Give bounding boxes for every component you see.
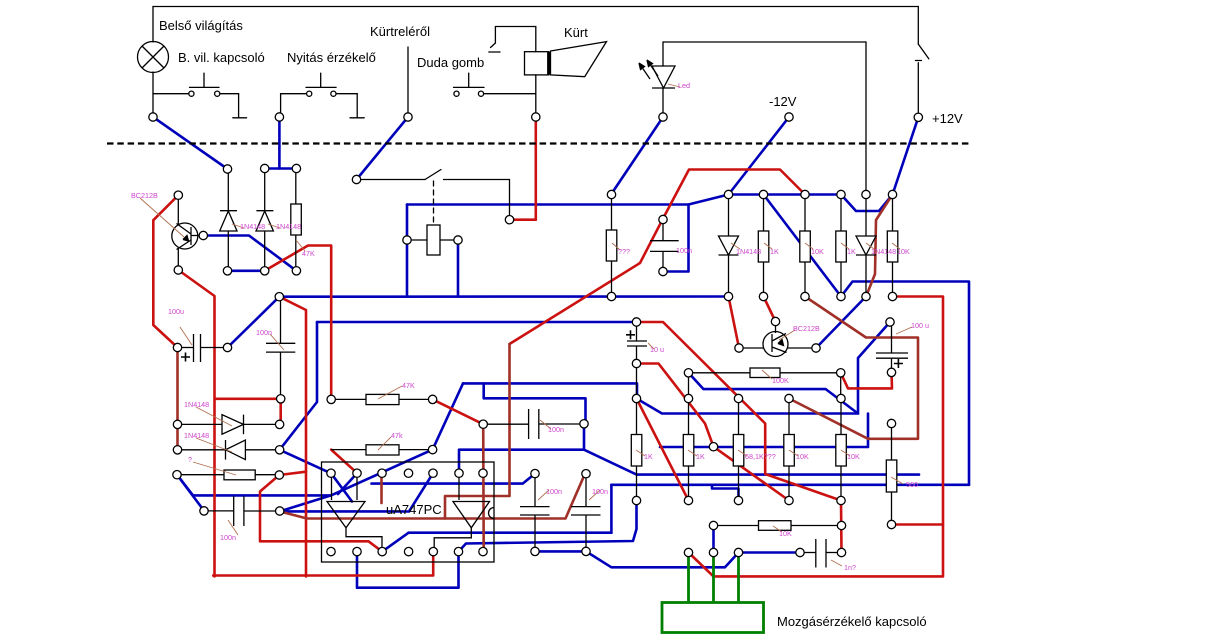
diode D3 1N4148 mid: [728, 195, 730, 237]
wire 10u top diag down to 10K bottom: [637, 322, 842, 501]
wire rail right corner to switch: [917, 7, 919, 45]
svg-text:-12V: -12V: [769, 94, 797, 109]
wire bus1 y474: [637, 473, 919, 476]
svg-text:100n: 100n: [676, 246, 692, 255]
wire cap top node down rail x306: [279, 297, 306, 577]
svg-text:1N4148: 1N4148: [871, 247, 896, 256]
resistor R 560: [891, 424, 893, 461]
resistor R 1K top2: [836, 231, 847, 262]
svg-text:1K: 1K: [847, 247, 856, 256]
wire lamp node to diode column: [153, 117, 228, 169]
wire pin1 stub: [331, 473, 352, 501]
wire led node to resistor top: [611, 117, 663, 195]
wire cap column to pin7 and 100n: [482, 424, 485, 551]
wire lamp row to switch1: [153, 93, 189, 95]
svg-text:1K: 1K: [770, 247, 779, 256]
wire pin3 bottom diag: [382, 533, 408, 552]
wire bus y322 drop to diode2: [280, 322, 317, 450]
wire cap top to 100u right: [228, 297, 280, 348]
svg-text:1K: 1K: [644, 452, 653, 461]
wire sensor switch line: [357, 179, 426, 181]
lamp belso vilagitas: [138, 42, 169, 73]
resistor R 10K col4: [788, 399, 790, 435]
texts magenta values: [131, 81, 929, 572]
svg-text:10 u: 10 u: [650, 345, 664, 354]
diode D2 1N4148 left: [264, 169, 266, 231]
wire pin2 stub diag: [338, 473, 357, 494]
svg-text:Mozgásérzékelő kapcsoló: Mozgásérzékelő kapcsoló: [777, 614, 927, 629]
wire bus y322: [317, 321, 637, 324]
switch +12V blade: [918, 44, 929, 59]
diode D4 1N4148 right: [865, 195, 867, 237]
wire transistor2 top feed: [764, 297, 776, 322]
resistor R 100K horizontal: [689, 372, 751, 374]
wire RED-A 10K top node long feedback to 100n cap: [280, 344, 510, 519]
transistor Q2 BC212B: [763, 332, 788, 357]
wire resistor left to cap: [177, 475, 204, 511]
wire LED frame: [663, 41, 866, 43]
wire V-node to right corner bus: [841, 282, 969, 485]
wire cap bottoms row: [535, 550, 586, 553]
capacitor C 100n mid horizontal: [483, 423, 528, 425]
svg-text:1N4148: 1N4148: [736, 247, 761, 256]
svg-text:10K: 10K: [811, 247, 824, 256]
wire horn node down to relay contact node: [510, 117, 536, 220]
wire duda switch to horn column: [484, 93, 536, 95]
resistor R 68.1K col3: [738, 399, 740, 435]
op-amp2 input stub: [458, 477, 460, 500]
resistor R 10K top2: [887, 231, 898, 262]
wire nyitas node up and to switch2: [280, 94, 282, 117]
resistor R 1K col2: [688, 399, 690, 435]
svg-text:68,1K???: 68,1K???: [745, 452, 776, 461]
svg-text:47K: 47K: [302, 249, 315, 258]
svg-text:???: ???: [618, 247, 630, 256]
wire P2 feedback: [280, 473, 433, 511]
wire tee between diode2 and 47K top: [265, 167, 297, 170]
svg-text:+12V: +12V: [932, 111, 963, 126]
svg-text:Duda gomb: Duda gomb: [417, 55, 484, 70]
wire cap to sensor node: [586, 551, 739, 567]
wire resistor right down rail x260 to pin3: [260, 475, 382, 552]
svg-text:10K: 10K: [779, 529, 792, 538]
wire node diag to B1: [280, 495, 331, 511]
svg-text:100 u: 100 u: [911, 321, 929, 330]
wire kurtrele node to sensor switch: [357, 117, 409, 180]
svg-text:560: 560: [906, 480, 918, 489]
capacitor C 100n mid vertical: [662, 220, 664, 241]
svg-text:1N4148: 1N4148: [240, 222, 265, 231]
relay dashed link: [433, 181, 435, 225]
wire 47K right to cap: [433, 399, 484, 424]
wire pin3 input stub: [380, 477, 383, 503]
wire drop to 100n cap bottom: [663, 205, 689, 272]
wire 47k left to pin2: [331, 450, 357, 474]
resistor R 10K col5: [840, 399, 842, 435]
wire B1 feedback: [193, 450, 433, 496]
resistor R 10K top: [800, 231, 811, 262]
capacitor C 100n bottom left horizontal: [204, 510, 234, 512]
svg-text:100u: 100u: [168, 307, 184, 316]
wire bus2 drop to y447 row: [660, 414, 868, 448]
wire y398 link: [215, 399, 281, 425]
wire cap right down to y449: [584, 424, 637, 475]
wire switch1 to ground: [220, 93, 239, 95]
svg-text:1K: 1K: [696, 452, 705, 461]
wire lamp to switch1 level: [152, 72, 154, 117]
wire 10K bottom to right rail: [689, 297, 944, 577]
wire RED-A upper diagonal from 10K top: [510, 170, 806, 345]
wire y383 steep drop to 47k right: [433, 383, 463, 449]
wire switch2 to ground: [336, 93, 357, 95]
wire diode bottom to 47K column: [265, 246, 332, 400]
svg-text:1N4148: 1N4148: [184, 431, 209, 440]
wire x306 branch to resistor right node: [279, 472, 306, 475]
svg-text:47K: 47K: [402, 381, 415, 390]
capacitor C 100n vert2: [585, 474, 587, 507]
wire transistor1 bottom down left rail: [178, 270, 214, 576]
wire loop 10K top node to 10K column: [789, 297, 918, 439]
wire dip between 1K and 10K top nodes: [841, 195, 893, 212]
svg-text:47k: 47k: [391, 431, 403, 440]
wire bus484 drop to 68K bottom: [712, 485, 739, 501]
op-amp2 output boot to pin: [434, 528, 471, 548]
capacitor C 100u left electrolytic: [178, 347, 194, 349]
wire 100K right to 100u bottom: [841, 372, 892, 388]
svg-text:BC212B: BC212B: [793, 324, 820, 333]
wire 10K bottom node down to cap 1n: [840, 501, 843, 553]
wire relay left to node row horizontal: [407, 195, 729, 205]
svg-text:100n: 100n: [256, 328, 272, 337]
diode D6 1N4148 row: [178, 449, 226, 451]
wire sensor node to cap 1n: [739, 551, 801, 554]
capacitor C 10u electrolytic: [636, 322, 638, 341]
wire top node bus row right: [729, 193, 842, 196]
wire 10K top to diode bottom: [866, 195, 893, 297]
capacitor C 100n left: [280, 297, 282, 344]
texts black: [159, 18, 963, 629]
wire 10K left drop: [712, 526, 715, 553]
svg-text:1n?: 1n?: [844, 563, 856, 572]
resistor R mystery horizontal: [177, 474, 224, 476]
wire red bus y576 left: [213, 553, 433, 576]
wire diode bottoms: [228, 269, 265, 272]
op-amp IC U1 uA747PC: [322, 462, 495, 562]
resistor R led ???: [606, 230, 617, 261]
sensor switch blade: [425, 170, 441, 180]
wire cap right loop y398: [484, 383, 586, 423]
resistor R 1K top: [758, 231, 769, 262]
wire mid bus y296: [279, 295, 728, 298]
wire kurtrele stem: [407, 47, 409, 117]
resistor R 10K bottom horizontal: [714, 525, 759, 527]
relay contact above horn: [495, 27, 535, 52]
motion sensor connector green: [662, 557, 764, 633]
svg-text:B. vil. kapcsoló: B. vil. kapcsoló: [178, 50, 265, 65]
wire 1K top diag to 1K bottom: [637, 399, 689, 501]
LED led1: [652, 66, 675, 88]
svg-text:10K: 10K: [897, 247, 910, 256]
svg-text:?: ?: [188, 455, 192, 464]
resistor 47K vertical left: [291, 204, 302, 235]
resistor R 1K col1: [636, 399, 638, 435]
wire nyitas node down to diode/resistor tee: [278, 117, 281, 169]
wire 100u top via bus2 to 1K top: [637, 322, 891, 414]
node circles: [149, 91, 923, 557]
svg-text:Nyitás érzékelő: Nyitás érzékelő: [287, 50, 376, 65]
wire frame right down to node row: [865, 42, 867, 195]
switch2 nyitas erzekelo: [320, 73, 322, 87]
wire relay left vertical: [406, 205, 409, 297]
wire y532 run: [409, 531, 612, 534]
wire rail to lamp: [152, 7, 154, 43]
horn kurt: [525, 52, 549, 75]
relay coil K1: [427, 225, 440, 255]
wire 100u left node down to diode rows: [176, 348, 179, 450]
svg-text:100n: 100n: [592, 487, 608, 496]
svg-text:BC212B: BC212B: [131, 191, 158, 200]
resistor R 47k horizontal: [331, 449, 366, 451]
wire 10u bottom diag to resistor bottom: [637, 364, 790, 501]
op-amp1 output boot to pin: [346, 528, 382, 548]
dashed separator line: [107, 142, 969, 144]
wire relay right vertical: [457, 240, 460, 297]
svg-text:Kürtreléről: Kürtreléről: [370, 24, 430, 39]
wire 1K bottom node to pin6: [459, 501, 637, 552]
svg-text:100n: 100n: [548, 425, 564, 434]
wire 100K left to bus2: [689, 373, 859, 414]
svg-text:uA747PC: uA747PC: [386, 502, 442, 517]
svg-text:100n: 100n: [220, 533, 236, 542]
ground bar 2: [350, 117, 364, 119]
svg-text:100n: 100n: [546, 487, 562, 496]
diode D1 1N4148 left: [227, 169, 229, 231]
resistor R 47K horizontal: [331, 398, 366, 400]
wire transistor1 top to 100u left: [153, 195, 178, 347]
capacitor C 1n horizontal: [800, 552, 816, 554]
capacitor C 100u right electrolytic: [891, 322, 893, 353]
leader lines thin sienna: [140, 84, 912, 566]
wire bus y383: [463, 383, 637, 398]
svg-text:1N4148: 1N4148: [184, 400, 209, 409]
ground bar 1: [233, 117, 247, 119]
svg-text:Belső világítás: Belső világítás: [159, 18, 243, 33]
transistor Q1 BC212B: [172, 223, 198, 249]
svg-text:100K: 100K: [772, 376, 789, 385]
svg-text:10K: 10K: [847, 452, 860, 461]
wire 1K top node to V-node diagonal: [764, 195, 842, 297]
wire +12V to node row: [893, 117, 919, 194]
diode D5 1N4148 row: [178, 423, 223, 425]
wire resistor left spur: [177, 475, 193, 496]
wire y483 to cap535: [372, 474, 536, 484]
relay coil leads: [411, 239, 427, 241]
wire diode top to transistor2 left: [729, 297, 740, 349]
wire transistor1 base to resistor bottom: [203, 236, 296, 271]
wire transistor2 right to diode bottom: [816, 297, 866, 349]
svg-text:1N4148: 1N4148: [276, 222, 301, 231]
wire top supply rail: [153, 6, 918, 8]
svg-text:Kürt: Kürt: [564, 25, 588, 40]
wire pin4-pin6 bottom U: [357, 552, 459, 588]
wire -12V to node row: [729, 117, 790, 195]
wire 560 bottom to right rail: [892, 523, 944, 526]
svg-text:10K: 10K: [796, 452, 809, 461]
svg-text:Led: Led: [678, 81, 690, 90]
capacitor C 100n vert1: [534, 474, 536, 507]
wire bus y484 drop: [610, 485, 613, 533]
wire y449 to pin6: [459, 450, 584, 474]
wire bus y484: [611, 483, 969, 486]
switch3 duda gomb: [468, 73, 470, 87]
op-amp1 input stubs: [331, 477, 333, 500]
wire diode2 right to pin1: [280, 450, 331, 473]
switch1 B.vil kapcsolo: [203, 73, 205, 87]
